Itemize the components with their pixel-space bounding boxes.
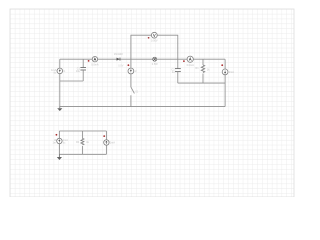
- wire: bl middle vertical top stub: [81, 131, 83, 138]
- svg-text:0.5W: 0.5W: [152, 63, 158, 66]
- ground (bottom-left circuit): [57, 154, 62, 160]
- wire: lower-right loop bottom: [178, 82, 225, 84]
- current source I5: [104, 140, 116, 145]
- wire: bl right vertical: [105, 131, 107, 154]
- svg-text:0.0mA: 0.0mA: [187, 64, 195, 67]
- wire: main top bus: [60, 58, 225, 60]
- ammeter AM1: [91, 57, 99, 67]
- svg-text:0.00V: 0.00V: [151, 40, 158, 43]
- node red dot (I5 top terminal): [103, 135, 105, 137]
- wire: bl top bus: [59, 130, 106, 132]
- ground (main circuit, bottom-left of bus): [57, 107, 62, 111]
- node red dot (I2 top terminal): [127, 64, 129, 66]
- svg-text:0.0mA: 0.0mA: [91, 63, 99, 66]
- current source I2: [128, 68, 137, 74]
- svg-text:1mA: 1mA: [229, 71, 234, 74]
- svg-text:1m: 1m: [53, 142, 56, 145]
- node red dot (AM2 terminal): [183, 60, 185, 62]
- node red dot (I3 top terminal): [221, 64, 223, 66]
- wire: main bottom bus: [59, 106, 225, 108]
- node red dot (AM1 minus terminal): [88, 60, 90, 62]
- current source I3: [222, 69, 234, 75]
- wire: right branch vertical: [224, 59, 226, 69]
- svg-text:1N4148: 1N4148: [114, 53, 123, 56]
- ammeter AM2: [187, 56, 195, 67]
- capacitor C2: [171, 59, 180, 83]
- resistor R1: [195, 59, 210, 83]
- wire: top loop (left up, top, right down): [131, 35, 178, 59]
- voltmeter VM1: [151, 32, 158, 42]
- wire: C1 sub-loop bottom: [60, 80, 83, 82]
- current source I1: [51, 68, 66, 74]
- wire: mid branch upper: [130, 59, 132, 68]
- svg-text:1mA: 1mA: [110, 142, 115, 145]
- resistor R2: [76, 138, 90, 145]
- wire: bl left vertical: [58, 131, 60, 154]
- switch SW1 (open): [131, 74, 135, 107]
- grid canvas: [10, 9, 294, 197]
- svg-text:0.0V: 0.0V: [118, 64, 123, 67]
- wire: main left vertical: [59, 59, 61, 106]
- current source I4: [53, 138, 69, 144]
- node red mark (VM1 plus terminal): [148, 37, 150, 39]
- node red dot (I4 top terminal): [56, 134, 58, 136]
- capacitor C1: [76, 59, 86, 81]
- diode D1: [114, 53, 124, 67]
- lamp L1: [152, 57, 158, 66]
- wire: bl middle vertical bottom stub: [81, 146, 83, 154]
- svg-text:10u: 10u: [76, 70, 81, 73]
- wire: bl bottom bus: [59, 153, 106, 155]
